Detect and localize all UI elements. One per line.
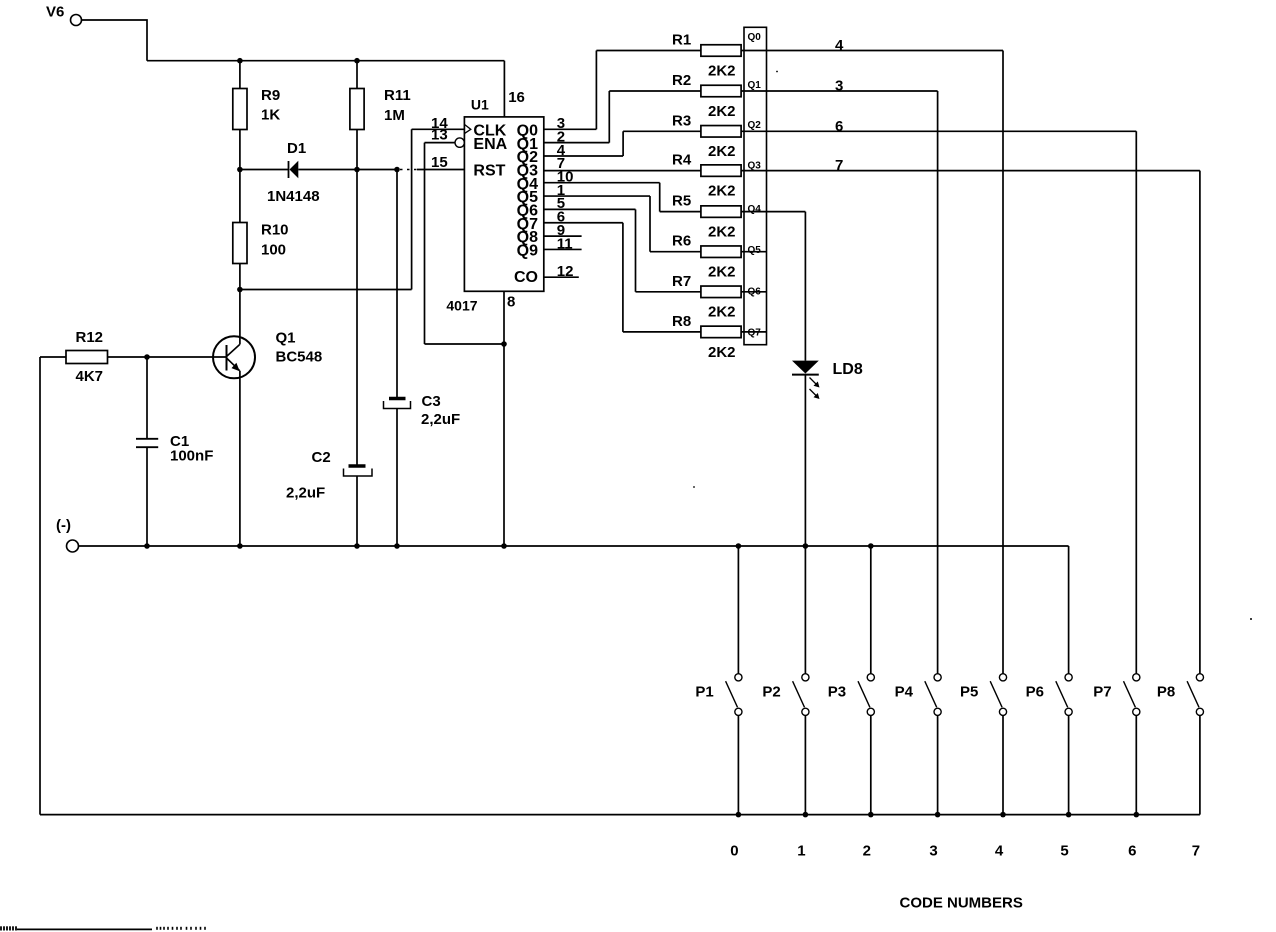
svg-text:11: 11	[557, 235, 573, 252]
svg-text:6: 6	[835, 118, 843, 135]
junction collector node	[237, 287, 243, 293]
svg-text:13: 13	[431, 127, 448, 144]
svg-text:16: 16	[508, 89, 525, 106]
svg-text:P1: P1	[695, 684, 713, 701]
svg-text:4: 4	[995, 842, 1004, 859]
resistor R1	[701, 45, 741, 57]
svg-text:7: 7	[1192, 842, 1200, 859]
svg-text:100: 100	[261, 242, 286, 259]
svg-text:R2: R2	[672, 72, 691, 89]
junction base / C1	[144, 354, 150, 360]
junction ground / LED/P2	[803, 543, 809, 549]
resistor R9	[239, 61, 241, 89]
resistor R10	[239, 170, 241, 223]
switch P1	[735, 674, 742, 681]
svg-text:R1: R1	[672, 32, 691, 49]
svg-text:R8: R8	[672, 313, 691, 330]
inverter bubble ENA	[455, 138, 464, 147]
svg-text:4: 4	[835, 37, 844, 54]
junction bottom bus / P2	[803, 812, 809, 818]
wire Q0 riser to R1	[595, 51, 597, 130]
junction ENA / pin8	[501, 341, 507, 347]
junction ground / Q1	[237, 543, 243, 549]
svg-text:ENA: ENA	[473, 136, 507, 153]
resistor R3	[701, 126, 741, 138]
svg-text:P3: P3	[828, 684, 846, 701]
junction ground / pin8	[501, 543, 507, 549]
junction bottom bus / P3	[868, 812, 874, 818]
svg-text:Q5: Q5	[748, 245, 762, 256]
wire R5 output	[741, 211, 805, 213]
svg-text:4017: 4017	[446, 298, 477, 314]
svg-text:CO: CO	[514, 269, 538, 286]
clock input wedge	[464, 124, 470, 133]
svg-text:100nF: 100nF	[170, 448, 213, 465]
svg-text:5: 5	[1060, 842, 1068, 859]
switch P8	[1196, 674, 1203, 681]
wire net 7 drop to P8	[1199, 171, 1201, 674]
wire left feedback drop	[39, 357, 41, 815]
wire RST net (dash artifact)	[400, 169, 417, 171]
resistor R7	[701, 286, 741, 298]
junction bottom bus / P7	[1134, 812, 1140, 818]
svg-text:1K: 1K	[261, 107, 280, 124]
wire R1 output	[741, 50, 1003, 52]
svg-text:1N4148: 1N4148	[267, 188, 320, 205]
wire LED cathode to P2	[804, 375, 806, 674]
svg-text:R3: R3	[672, 112, 691, 129]
wire R4 output	[741, 170, 1200, 172]
svg-text:2K2: 2K2	[708, 183, 736, 200]
wire net 3 drop to P4	[937, 91, 939, 674]
wire pin 16	[503, 61, 505, 117]
connector J1 body	[744, 27, 767, 344]
wire pin 8 to ground	[503, 291, 505, 546]
terminal (-)	[67, 540, 79, 552]
terminal V6	[71, 15, 82, 26]
wire U1 pin Q4 stub	[544, 182, 660, 184]
LED arrows	[810, 378, 817, 385]
junction D1 net / R9-R10	[237, 167, 243, 173]
resistor R5	[701, 206, 741, 218]
junction bottom bus / P6	[1066, 812, 1072, 818]
junction ground / P1	[736, 543, 742, 549]
svg-text:Q0: Q0	[748, 32, 762, 43]
junction bottom bus / P1	[736, 812, 742, 818]
wire R2 output	[741, 90, 938, 92]
svg-text:P4: P4	[895, 684, 914, 701]
LED LD8	[792, 361, 819, 374]
switch P6	[1065, 674, 1072, 681]
scan artifact bottom line	[17, 928, 152, 930]
junction D1 net / R11	[354, 167, 360, 173]
svg-text:(-): (-)	[56, 517, 71, 534]
wire R6 output	[741, 251, 766, 253]
resistor R12	[40, 356, 66, 358]
wire ENA net	[425, 142, 456, 144]
wire U1 pin Q2 stub	[544, 155, 623, 157]
wire U1 pin Q1 stub	[544, 142, 610, 144]
wire top supply bus	[147, 60, 504, 62]
speck artifacts	[776, 71, 778, 73]
svg-text:2,2uF: 2,2uF	[286, 485, 325, 502]
wire R8 output	[741, 331, 766, 333]
svg-text:R7: R7	[672, 273, 691, 290]
svg-text:4K7: 4K7	[76, 368, 104, 385]
wire U1 pin Q3 stub	[544, 170, 701, 172]
svg-text:V6: V6	[46, 4, 64, 21]
svg-text:2K2: 2K2	[708, 143, 736, 160]
diode D1	[288, 161, 290, 178]
svg-text:2K2: 2K2	[708, 224, 736, 241]
wire collector to CLK	[240, 289, 412, 291]
svg-text:6: 6	[1128, 842, 1136, 859]
wire Q1 riser to R2	[608, 91, 610, 143]
wire D1 anode net	[240, 169, 289, 171]
svg-text:1: 1	[797, 842, 805, 859]
wire U1 pin Q8 stub	[544, 235, 582, 237]
wire U1 pin Q0 stub	[544, 128, 597, 130]
svg-text:Q2: Q2	[748, 120, 762, 131]
junction ground / P3	[868, 543, 874, 549]
svg-text:R10: R10	[261, 222, 289, 239]
svg-text:R9: R9	[261, 87, 280, 104]
svg-text:8: 8	[507, 293, 515, 310]
svg-text:2K2: 2K2	[708, 62, 736, 79]
wire ground to P3	[870, 546, 872, 674]
wire net 6 drop to P7	[1135, 131, 1137, 673]
svg-text:Q4: Q4	[748, 204, 762, 215]
wire Q2 riser to R3	[622, 131, 624, 156]
wire Q7 drop to R8	[622, 223, 624, 332]
svg-text:D1: D1	[287, 140, 306, 157]
wire collector	[239, 290, 241, 345]
wire bottom code bus	[40, 814, 1200, 816]
svg-text:2K2: 2K2	[708, 304, 736, 321]
switch P7	[1133, 674, 1140, 681]
svg-text:CODE NUMBERS: CODE NUMBERS	[900, 895, 1023, 912]
svg-text:BC548: BC548	[276, 348, 323, 365]
svg-text:C3: C3	[422, 393, 441, 410]
junction bottom bus / P5	[1000, 812, 1006, 818]
svg-text:3: 3	[929, 842, 937, 859]
svg-text:0: 0	[730, 842, 738, 859]
wire Q4 drop to R5	[659, 183, 661, 212]
svg-text:Q7: Q7	[748, 328, 762, 339]
svg-text:P8: P8	[1157, 684, 1175, 701]
svg-text:12: 12	[557, 263, 574, 280]
svg-text:2: 2	[863, 842, 871, 859]
wire Q6 drop to R7	[635, 209, 637, 291]
transistor Q1 BC548	[213, 336, 255, 378]
svg-text:P7: P7	[1093, 684, 1111, 701]
svg-text:2K2: 2K2	[708, 344, 736, 361]
wire R3 output	[741, 130, 1136, 132]
resistor R6	[701, 246, 741, 258]
svg-text:Q3: Q3	[748, 161, 762, 172]
svg-text:P5: P5	[960, 684, 978, 701]
svg-text:C2: C2	[312, 449, 331, 466]
wire CO stub	[544, 276, 579, 278]
junction ground / C3	[394, 543, 400, 549]
wire Q5 drop to R6	[649, 196, 651, 252]
svg-text:R6: R6	[672, 233, 691, 250]
svg-text:R12: R12	[76, 329, 104, 346]
junction ground / C2	[354, 543, 360, 549]
resistor R2	[701, 85, 741, 97]
junction D1 net / C3	[394, 167, 400, 173]
svg-text:7: 7	[835, 157, 843, 174]
switch P2	[802, 674, 809, 681]
svg-text:RST: RST	[473, 162, 505, 179]
svg-text:1M: 1M	[384, 107, 405, 124]
svg-text:2,2uF: 2,2uF	[421, 411, 460, 428]
wire V6 to top bus	[82, 20, 148, 61]
resistor R8	[701, 326, 741, 338]
wire emitter to ground	[239, 371, 241, 546]
svg-text:3: 3	[835, 78, 843, 95]
svg-text:U1: U1	[471, 97, 489, 113]
capacitor C1	[146, 357, 148, 439]
svg-text:R11: R11	[384, 87, 411, 104]
wire D1 net to C3 node	[357, 169, 397, 171]
svg-text:Q9: Q9	[517, 243, 538, 260]
resistor R11	[356, 61, 358, 89]
wire ground bus	[79, 545, 1069, 547]
op-amp U1 4017 body	[464, 117, 543, 291]
svg-text:Q1: Q1	[276, 329, 296, 346]
wire R7 output	[741, 291, 766, 293]
capacitor C2	[356, 170, 358, 467]
wire U1 pin Q9 stub	[544, 248, 582, 250]
wire U1 pin Q6 stub	[544, 208, 636, 210]
switch P5	[999, 674, 1006, 681]
svg-text:2K2: 2K2	[708, 264, 736, 281]
switch P4	[934, 674, 941, 681]
svg-text:R4: R4	[672, 152, 692, 169]
svg-text:P2: P2	[762, 684, 780, 701]
wire ground to P1	[737, 546, 739, 674]
junction bottom bus / P4	[935, 812, 941, 818]
resistor R4	[701, 165, 741, 177]
svg-text:LD8: LD8	[833, 361, 863, 378]
junction ground / C1	[144, 543, 150, 549]
wire net 4 drop to P5	[1002, 51, 1004, 674]
wire U1 pin Q7 stub	[544, 222, 623, 224]
capacitor C3	[396, 170, 398, 399]
svg-text:15: 15	[431, 154, 448, 171]
wire ground bus to P6	[1068, 546, 1070, 674]
svg-text:P6: P6	[1026, 684, 1044, 701]
wire U1 pin Q5 stub	[544, 195, 650, 197]
svg-text:Q1: Q1	[748, 80, 762, 91]
switch P3	[867, 674, 874, 681]
svg-text:R5: R5	[672, 193, 691, 210]
svg-text:2K2: 2K2	[708, 103, 736, 120]
wire Q4 net to LED	[804, 212, 806, 361]
junction top bus / R9	[237, 58, 243, 64]
junction top bus / R11	[354, 58, 360, 64]
svg-text:Q6: Q6	[748, 287, 762, 298]
